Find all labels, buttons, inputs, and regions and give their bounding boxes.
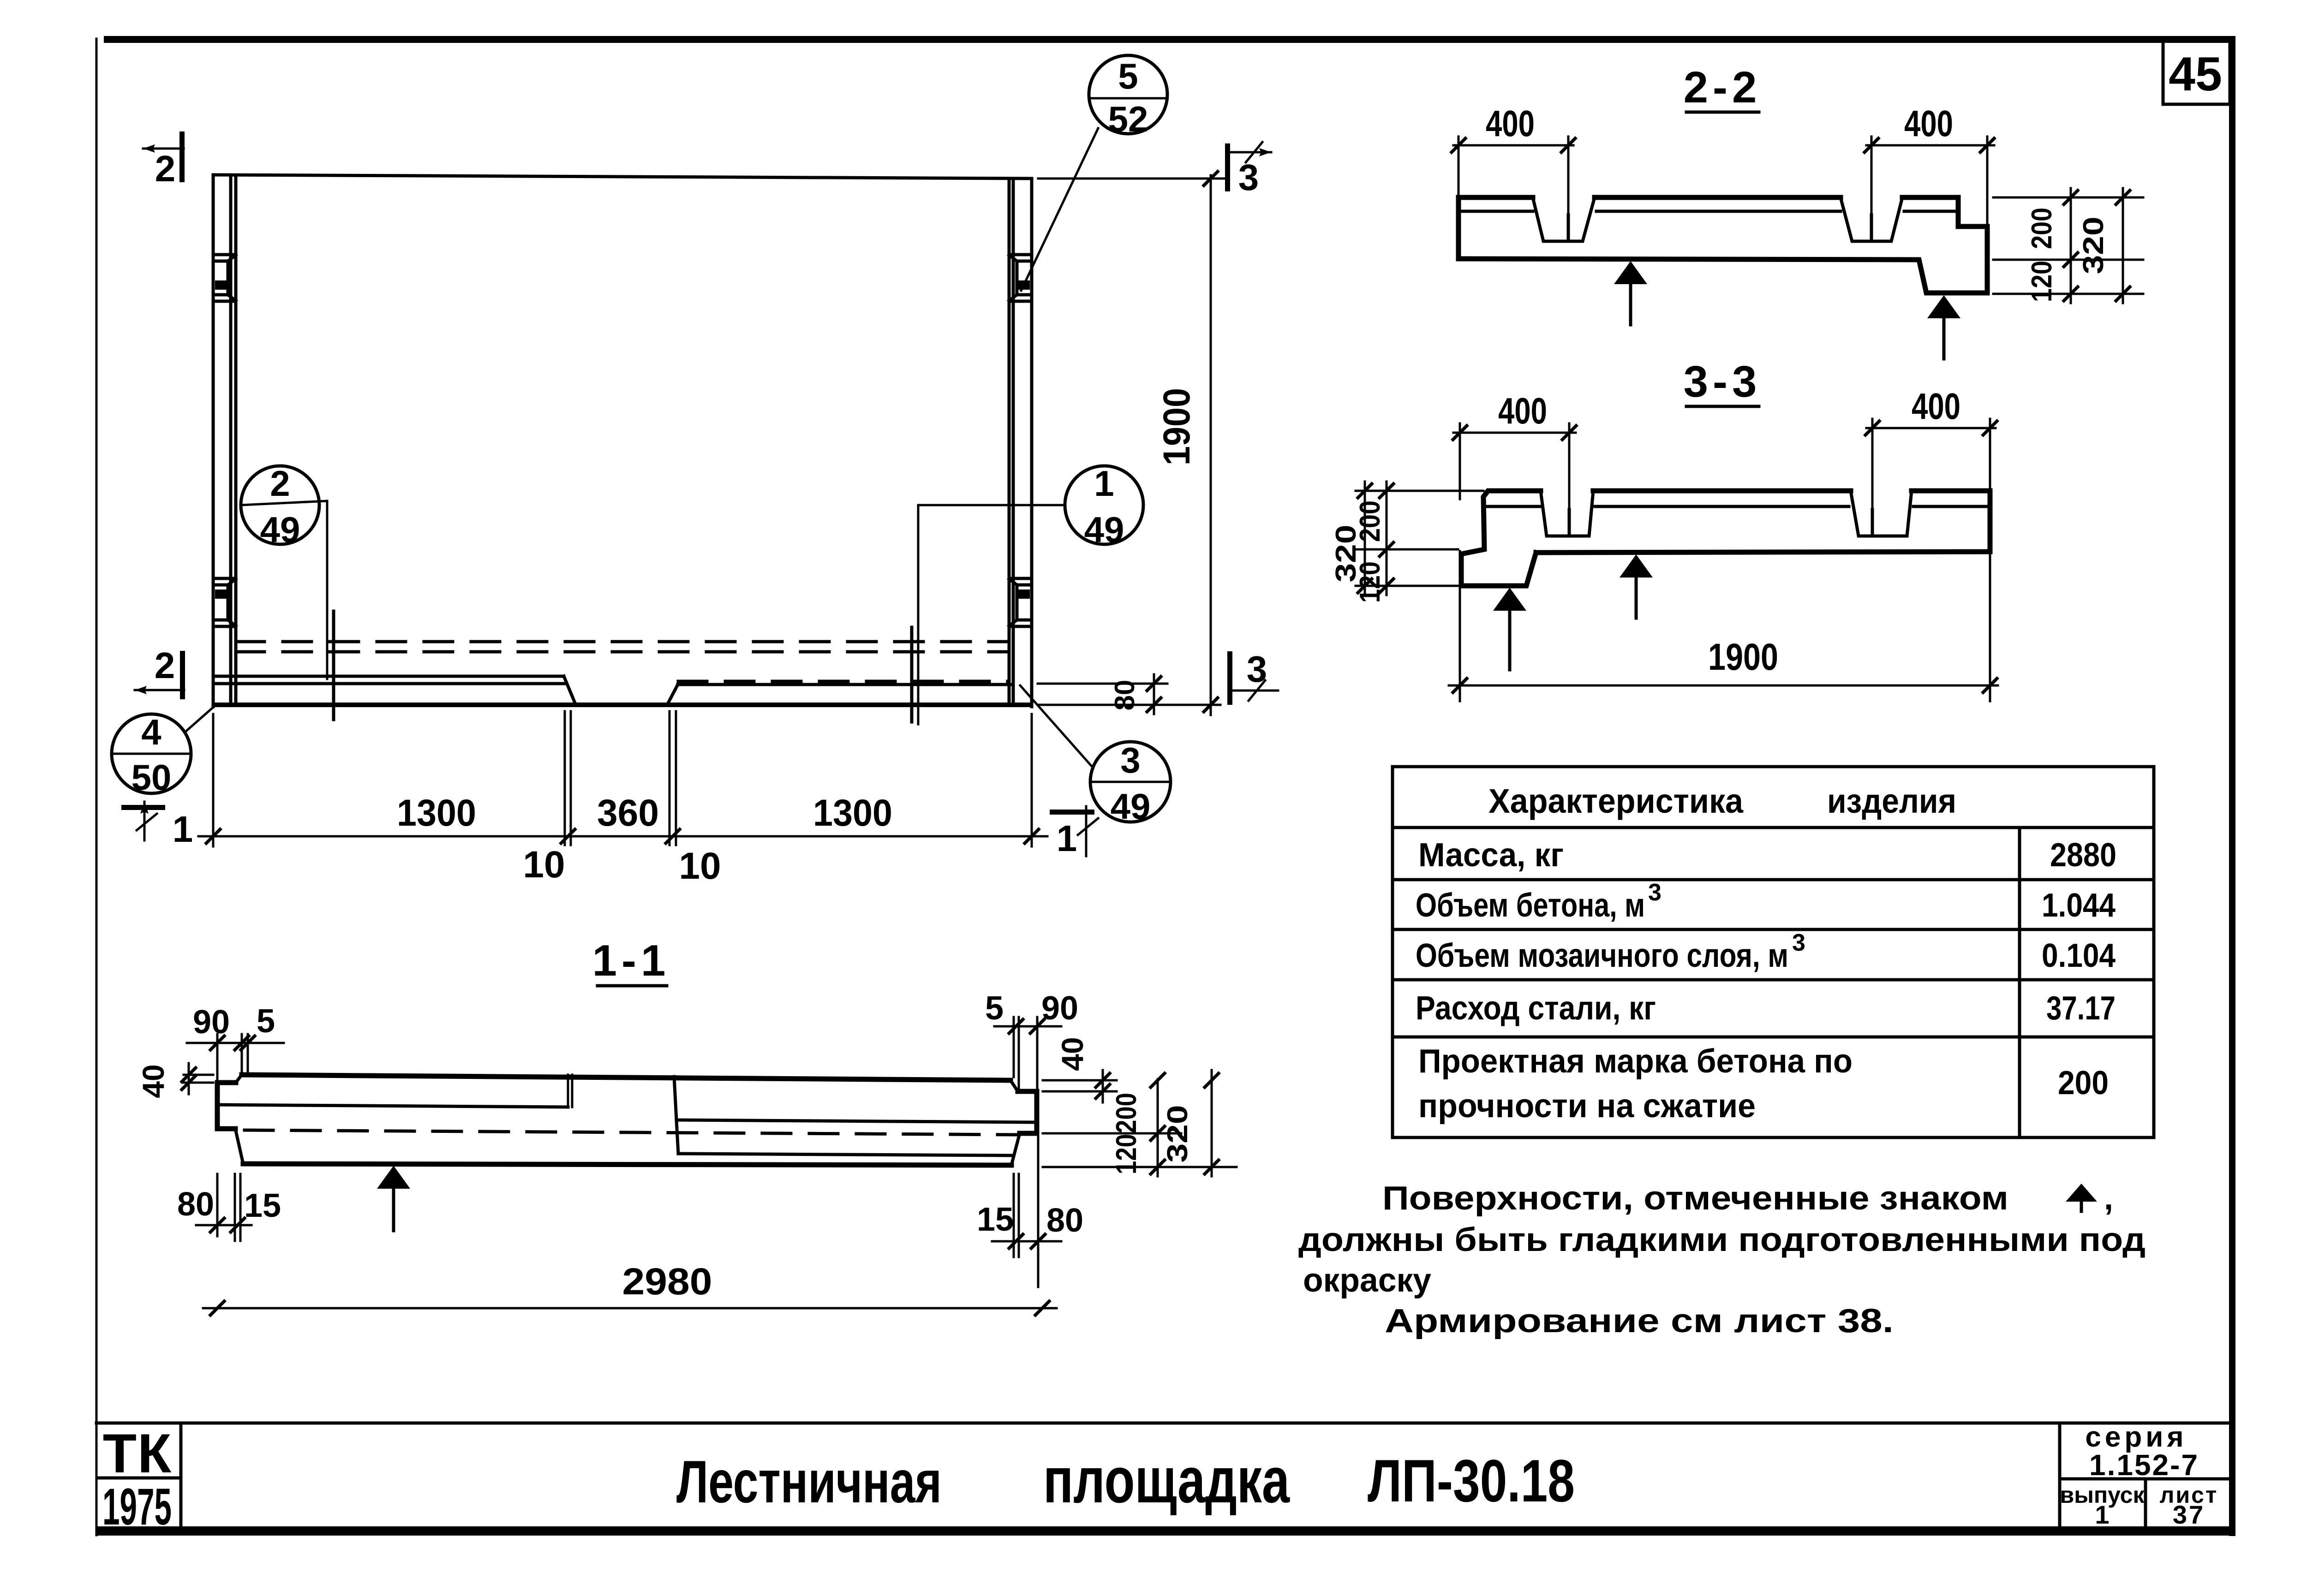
plan dimension 1900 vertical (1038, 172, 1227, 715)
svg-text:Объем мозаичного слоя, м: Объем мозаичного слоя, м (1416, 937, 1788, 974)
section 3-3 support arrow left (1493, 588, 1526, 670)
svg-text:1900: 1900 (1156, 388, 1198, 465)
svg-text:3-3: 3-3 (1684, 357, 1762, 406)
svg-text:40: 40 (136, 1064, 170, 1098)
svg-text:1975: 1975 (102, 1478, 172, 1536)
svg-text:1: 1 (1057, 818, 1077, 859)
svg-text:200: 200 (2026, 208, 2058, 249)
svg-text:320: 320 (2078, 217, 2110, 274)
plan bottom dimension line (198, 711, 1047, 846)
svg-text:49: 49 (260, 509, 300, 550)
section 3-3 dim 1900 (1449, 551, 1998, 701)
table row steel (1416, 990, 2116, 1027)
svg-text:3: 3 (1120, 740, 1140, 780)
section 3-3 profile (1461, 491, 1990, 586)
section 1-1 dim 90 5 left (187, 1003, 284, 1079)
svg-text:90: 90 (1041, 990, 1078, 1027)
section 2-2 support arrow right (1927, 295, 1960, 359)
section marker 1 left (121, 802, 193, 850)
dimension label 10 right (679, 845, 721, 887)
section 2-2 profile (1458, 197, 1987, 293)
section 1-1 finish layer left (218, 1075, 572, 1107)
keyway lower right (1009, 578, 1032, 626)
section 1-1 dim 5 90 right (985, 990, 1078, 1089)
svg-text:Проектная марка бетона по: Проектная марка бетона по (1418, 1043, 1853, 1080)
svg-text:45: 45 (2169, 48, 2222, 101)
svg-text:10: 10 (523, 844, 565, 886)
svg-text:3: 3 (1792, 929, 1805, 956)
section marker 2 bottom (135, 645, 185, 699)
note line 1 (1382, 1180, 2008, 1217)
plan view outline (212, 175, 1033, 707)
svg-text:2980: 2980 (622, 1261, 712, 1303)
table row concrete volume (1416, 879, 2116, 924)
section 2-2 trough left (1533, 197, 1595, 241)
keyway lower left (213, 578, 236, 626)
svg-text:400: 400 (1486, 103, 1535, 144)
keyway upper left (213, 255, 236, 301)
callout circle 1/49 (918, 463, 1143, 550)
svg-text:1.044: 1.044 (2042, 887, 2116, 924)
svg-text:49: 49 (1084, 509, 1124, 550)
section 3-3 dim 400 right (1865, 386, 1997, 510)
svg-text:Армирование см лист 38.: Армирование см лист 38. (1385, 1303, 1894, 1340)
svg-text:1: 1 (2095, 1500, 2109, 1529)
svg-text:2: 2 (155, 645, 175, 686)
section 1-1 dim 15 80 right (977, 1136, 1083, 1287)
svg-text:,: , (2104, 1180, 2113, 1217)
svg-text:10: 10 (679, 845, 721, 887)
svg-text:2880: 2880 (2050, 837, 2116, 874)
section 1-1 dashed centerline (245, 1130, 1017, 1135)
section 3-3 dim 400 left (1453, 390, 1576, 510)
svg-text:360: 360 (597, 792, 659, 834)
svg-text:1900: 1900 (1708, 636, 1778, 678)
plan right wall inner faces (1009, 179, 1013, 705)
svg-text:80: 80 (1109, 680, 1140, 711)
TK 1975 stamp box (98, 1423, 181, 1536)
svg-text:2: 2 (270, 463, 290, 504)
section 1-1 support arrow (377, 1166, 410, 1231)
svg-text:320: 320 (1162, 1105, 1194, 1163)
svg-text:Лестничная: Лестничная (676, 1448, 942, 1515)
section 1 cut line left (327, 501, 334, 720)
plan dimension 80 right (1038, 674, 1220, 714)
svg-text:1: 1 (1094, 463, 1114, 504)
section marker 2 top (143, 131, 185, 189)
table row mass (1418, 837, 2116, 874)
svg-text:49: 49 (1111, 786, 1151, 827)
section 3-3 title (1684, 357, 1762, 406)
dimension label 1300 left (397, 792, 476, 834)
svg-text:окраску: окраску (1303, 1262, 1431, 1299)
svg-text:80: 80 (177, 1186, 214, 1223)
svg-text:2: 2 (155, 148, 176, 189)
svg-text:5: 5 (985, 990, 1004, 1027)
section marker 1 right (1050, 806, 1098, 859)
section 3-3 trough right (1851, 491, 1912, 536)
dimension label 1300 right (813, 792, 892, 834)
svg-text:Расход стали, кг: Расход стали, кг (1416, 990, 1656, 1027)
svg-text:ТК: ТК (103, 1423, 173, 1484)
svg-text:3: 3 (1238, 157, 1259, 198)
svg-text:прочности на сжатие: прочности на сжатие (1418, 1088, 1756, 1125)
svg-text:ЛП-30.18: ЛП-30.18 (1368, 1447, 1575, 1514)
svg-text:80: 80 (1046, 1202, 1083, 1239)
sheet number box 45 (2163, 41, 2230, 104)
section 1-1 dim 40 right (1043, 1037, 1117, 1102)
section 2-2 right dims 200 120 320 (1993, 188, 2143, 303)
svg-text:изделия: изделия (1827, 782, 1956, 820)
keyway upper right (1009, 255, 1032, 301)
section 2-2 title (1684, 63, 1762, 112)
svg-text:37: 37 (2173, 1500, 2205, 1529)
hidden edge dashed lines (236, 642, 1009, 681)
section 1-1 profile (217, 1075, 1037, 1165)
svg-text:3: 3 (1247, 649, 1267, 690)
svg-text:1300: 1300 (397, 792, 476, 834)
section 3-3 left dims 200 120 320 (1330, 482, 1483, 603)
table row mosaic layer volume (1416, 929, 2116, 974)
drawing title (676, 1444, 1575, 1516)
svg-text:площадка: площадка (1043, 1444, 1290, 1516)
note surface mark symbol (2066, 1180, 2113, 1217)
title block band (96, 1422, 2232, 1425)
svg-text:400: 400 (1498, 390, 1547, 431)
callout circle 4/50 (112, 705, 216, 798)
callout circle 3/49 (1020, 685, 1171, 827)
svg-text:4: 4 (141, 712, 161, 752)
svg-text:1: 1 (173, 809, 193, 850)
svg-text:200: 200 (2058, 1065, 2109, 1102)
section 1 cut line right (912, 505, 918, 724)
svg-text:Объем бетона, м: Объем бетона, м (1416, 887, 1645, 924)
svg-text:3: 3 (1648, 879, 1662, 906)
plan left wall inner faces (231, 176, 236, 705)
dimension label 360 (597, 792, 659, 834)
plan bottom flange edges (213, 676, 1010, 704)
note line 4 (1385, 1303, 1894, 1340)
section 1-1 right dims 200 120 320 (1043, 1070, 1237, 1176)
svg-text:200: 200 (1111, 1093, 1142, 1133)
section 3-3 trough left (1541, 491, 1593, 536)
svg-text:52: 52 (1108, 99, 1148, 139)
svg-text:1-1: 1-1 (592, 936, 670, 985)
table row concrete grade (1418, 1043, 2109, 1125)
svg-text:400: 400 (1912, 386, 1960, 427)
svg-text:120: 120 (1111, 1134, 1142, 1174)
svg-text:0.104: 0.104 (2042, 937, 2116, 974)
callout circle 2/49 (241, 463, 327, 550)
svg-text:1300: 1300 (813, 792, 892, 834)
svg-text:Поверхности, отмеченные знаком: Поверхности, отмеченные знаком (1382, 1180, 2008, 1217)
svg-text:320: 320 (1330, 525, 1362, 583)
svg-text:15: 15 (244, 1187, 281, 1224)
section marker 3 bottom (1227, 649, 1278, 705)
svg-text:5: 5 (1118, 56, 1138, 96)
characteristics table frame (1393, 767, 2154, 1137)
section 2-2 dim 400 right (1865, 103, 1994, 225)
section 2-2 dim 400 left (1452, 103, 1575, 215)
svg-text:5: 5 (257, 1003, 275, 1040)
table header text (1488, 782, 1956, 820)
callout circle 5/52 (1021, 55, 1167, 291)
svg-text:должны быть гладкими подготовл: должны быть гладкими подготовленными под (1298, 1221, 2146, 1258)
svg-text:90: 90 (193, 1004, 230, 1041)
note line 2 (1298, 1221, 2146, 1258)
svg-text:400: 400 (1904, 103, 1953, 144)
svg-text:50: 50 (131, 757, 172, 798)
svg-text:37.17: 37.17 (2046, 990, 2116, 1027)
dimension label 10 left (523, 844, 565, 886)
note line 3 (1303, 1262, 1431, 1299)
svg-text:120: 120 (2026, 261, 2058, 302)
svg-text:40: 40 (1055, 1037, 1089, 1071)
section marker 3 top (1225, 142, 1271, 198)
svg-text:Характеристика: Характеристика (1488, 782, 1744, 820)
svg-text:2-2: 2-2 (1684, 63, 1762, 112)
section 2-2 support arrow mid (1614, 261, 1647, 325)
svg-text:Масса, кг: Масса, кг (1418, 837, 1564, 874)
section 1-1 dim 80 15 left (177, 1174, 281, 1241)
section 1-1 dim 2980 (203, 1261, 1057, 1315)
section 3-3 support arrow mid (1620, 554, 1653, 618)
section 1-1 title (592, 936, 670, 986)
section 1-1 dim 40 left (136, 1063, 213, 1098)
section 1-1 recess right (674, 1077, 1033, 1155)
section 2-2 trough right (1841, 197, 1902, 241)
series stamp box (2060, 1421, 2232, 1531)
svg-text:15: 15 (977, 1201, 1014, 1238)
svg-text:1.152-7: 1.152-7 (2089, 1448, 2199, 1482)
